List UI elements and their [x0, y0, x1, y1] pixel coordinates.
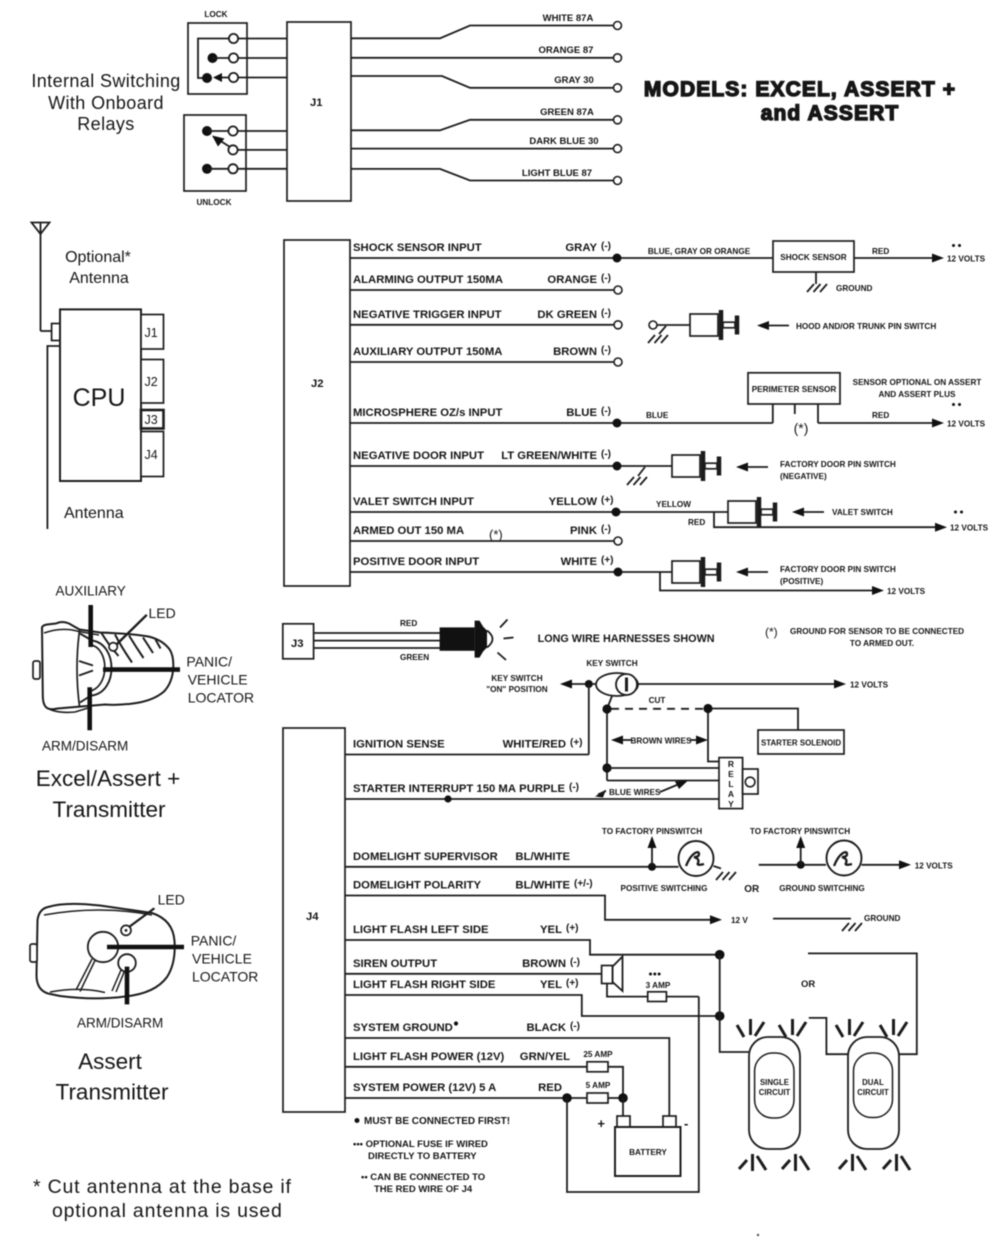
unlock contact top [202, 126, 238, 136]
svg-text:ARM/DISARM: ARM/DISARM [42, 739, 128, 754]
single circuit rays [737, 1019, 809, 1171]
svg-text:L: L [728, 779, 733, 789]
CPU box [60, 309, 141, 481]
svg-text:RED: RED [872, 411, 889, 420]
shock sensor box [773, 241, 854, 272]
wires J3 to LED [314, 619, 440, 662]
text long wire harnesses [538, 633, 715, 645]
svg-text:(-): (-) [601, 524, 611, 535]
svg-text:RED: RED [538, 1082, 562, 1094]
speck [757, 1234, 759, 1236]
svg-text:BLUE: BLUE [566, 407, 597, 419]
fob2 led dot [121, 925, 131, 935]
fob1 led dot [109, 643, 117, 651]
svg-text:NEGATIVE DOOR INPUT: NEGATIVE DOOR INPUT [353, 450, 484, 462]
note can be connected [361, 1172, 485, 1195]
svg-text:A: A [728, 789, 734, 799]
wire alarming output ORANGE [350, 273, 622, 294]
svg-text:(*): (*) [794, 420, 809, 436]
fob2 led callout [129, 892, 185, 928]
fob1 auxiliary callout bar [88, 605, 93, 647]
svg-text:NEGATIVE TRIGGER INPUT: NEGATIVE TRIGGER INPUT [353, 309, 502, 321]
valet switch symbol [620, 497, 775, 527]
svg-text:LIGHT FLASH LEFT SIDE: LIGHT FLASH LEFT SIDE [353, 924, 489, 936]
antenna wire from CPU [47, 346, 60, 529]
CPU connector J1 [141, 315, 164, 350]
connector J2 box [284, 240, 350, 586]
svg-text:* Cut antenna at the base if: * Cut antenna at the base if [33, 1176, 292, 1198]
svg-text:AND ASSERT PLUS: AND ASSERT PLUS [878, 390, 956, 399]
wire armed out PINK [350, 524, 622, 545]
svg-text:LT GREEN/WHITE: LT GREEN/WHITE [501, 450, 597, 462]
svg-text:5 AMP: 5 AMP [586, 1081, 611, 1090]
svg-text:CUT: CUT [649, 696, 666, 705]
svg-text:PURPLE: PURPLE [519, 783, 565, 795]
svg-text:12 V: 12 V [731, 916, 748, 925]
wire WHITE 87A [351, 13, 622, 38]
wire domelight polarity [345, 879, 748, 926]
relay LOCK box [188, 10, 247, 94]
cut dashed wire [602, 696, 712, 714]
svg-text:GROUND SWITCHING: GROUND SWITCHING [779, 884, 865, 893]
single circuit lamp [749, 1037, 800, 1149]
svg-text:BLUE WIRES: BLUE WIRES [609, 788, 661, 797]
wire starter interrupt [345, 782, 719, 803]
svg-text:(+): (+) [601, 555, 614, 566]
wire ignition sense [345, 738, 589, 755]
svg-text:••• OPTIONAL FUSE IF WIRED: ••• OPTIONAL FUSE IF WIRED [353, 1139, 488, 1150]
svg-text:(*): (*) [765, 625, 778, 639]
wire RED perimeter to 12V [818, 403, 986, 429]
starter solenoid box [758, 730, 844, 754]
svg-text:LED: LED [158, 892, 185, 908]
fob2 body assert [37, 904, 175, 999]
lock contact bottom with arrow [202, 73, 238, 83]
text OR switching [744, 884, 760, 895]
svg-text:RED: RED [400, 619, 417, 628]
svg-text:DOMELIGHT SUPERVISOR: DOMELIGHT SUPERVISOR [353, 851, 498, 863]
wire shock sensor input GRAY [350, 241, 622, 263]
svg-text:J2: J2 [145, 375, 158, 389]
svg-text:ALARMING OUTPUT 150MA: ALARMING OUTPUT 150MA [353, 274, 503, 286]
svg-text:GRAY 30: GRAY 30 [554, 75, 594, 86]
dual circuit rays [836, 1019, 910, 1171]
svg-text:ARM/DISARM: ARM/DISARM [77, 1016, 163, 1031]
svg-text:DK GREEN: DK GREEN [537, 309, 597, 321]
svg-text:DIRECTLY TO BATTERY: DIRECTLY TO BATTERY [368, 1151, 477, 1162]
fob2 arm callout bar [125, 967, 130, 1005]
svg-text:J3: J3 [291, 638, 304, 650]
antenna symbol [32, 223, 50, 332]
svg-text:GROUND: GROUND [836, 284, 872, 293]
svg-text:WHITE 87A: WHITE 87A [543, 13, 594, 24]
wire positive door input WHITE [350, 555, 623, 577]
note cut antenna [33, 1176, 292, 1222]
svg-text:and ASSERT: and ASSERT [761, 102, 900, 125]
svg-text:WHITE/RED: WHITE/RED [503, 739, 566, 751]
svg-text:BLUE, GRAY OR ORANGE: BLUE, GRAY OR ORANGE [648, 247, 751, 256]
wire light flash right side [345, 978, 715, 1016]
arrow valet switch label [792, 508, 893, 518]
fuse 5 amp [586, 1081, 628, 1116]
svg-text:RED: RED [688, 518, 705, 527]
svg-text:Y: Y [728, 799, 734, 809]
wire to starter solenoid [712, 709, 798, 731]
wire siren output [345, 957, 602, 974]
svg-text:optional antenna is used: optional antenna is used [52, 1200, 283, 1222]
svg-text:GREEN 87A: GREEN 87A [540, 107, 594, 118]
svg-text:12 VOLTS: 12 VOLTS [887, 587, 926, 596]
arrow hood/trunk label [757, 321, 936, 331]
siren speaker [602, 957, 623, 992]
svg-text:POSITIVE SWITCHING: POSITIVE SWITCHING [621, 884, 708, 893]
text optional antenna [65, 249, 131, 287]
svg-text:25 AMP: 25 AMP [583, 1050, 613, 1059]
wire system power [345, 1082, 587, 1103]
text excel/assert transmitter [36, 766, 180, 822]
svg-text:BL/WHITE: BL/WHITE [515, 851, 570, 863]
svg-text:12 VOLTS: 12 VOLTS [850, 681, 889, 690]
svg-text:Antenna: Antenna [69, 270, 129, 287]
perimeter sensor legs [773, 404, 818, 436]
svg-text:BATTERY: BATTERY [629, 1148, 667, 1157]
svg-text:(POSITIVE): (POSITIVE) [780, 577, 823, 586]
svg-text:LOCK: LOCK [204, 10, 227, 19]
hood/trunk pin switch [649, 310, 737, 340]
svg-text:OR: OR [801, 979, 815, 990]
svg-text:CIRCUIT: CIRCUIT [857, 1088, 889, 1097]
svg-text:LIGHT BLUE 87: LIGHT BLUE 87 [522, 168, 592, 179]
junction ignition sense to key switch [585, 680, 593, 755]
lock contact middle [208, 53, 239, 63]
svg-text:With Onboard: With Onboard [48, 93, 164, 113]
dual circuit alternative wires [808, 953, 917, 1054]
svg-text:VALET SWITCH INPUT: VALET SWITCH INPUT [353, 496, 474, 508]
svg-text:AUXILIARY: AUXILIARY [56, 584, 126, 599]
svg-text:LIGHT FLASH POWER (12V): LIGHT FLASH POWER (12V) [353, 1051, 504, 1063]
wire cut left vertical [602, 713, 611, 781]
bulb ground switching [750, 827, 953, 893]
svg-text:HOOD AND/OR TRUNK PIN SWITCH: HOOD AND/OR TRUNK PIN SWITCH [796, 322, 936, 331]
svg-text:DUAL: DUAL [862, 1078, 884, 1087]
wire auxiliary output BROWN [350, 345, 622, 366]
text sensor optional [853, 378, 982, 399]
arrow factory door negative label [736, 460, 896, 481]
relay UNLOCK box [184, 115, 246, 207]
fob1 ribs [102, 633, 161, 663]
svg-text:J1: J1 [310, 97, 323, 109]
svg-text:STARTER SOLENOID: STARTER SOLENOID [761, 739, 841, 748]
shock sensor ground [807, 272, 872, 293]
svg-text:(+): (+) [566, 923, 579, 934]
wire light flash left side [345, 923, 715, 955]
text internal switching [31, 71, 180, 134]
fob1 key tab [33, 661, 40, 679]
wire system ground [345, 1021, 669, 1116]
unlock contact middle with arrow [212, 136, 238, 155]
svg-text:J1: J1 [145, 326, 158, 340]
svg-text:(-): (-) [601, 241, 611, 252]
svg-text:GREEN: GREEN [400, 653, 429, 662]
svg-text:KEY SWITCH: KEY SWITCH [586, 659, 637, 668]
svg-text:LONG WIRE HARNESSES SHOWN: LONG WIRE HARNESSES SHOWN [538, 633, 715, 645]
svg-text:FACTORY DOOR PIN SWITCH: FACTORY DOOR PIN SWITCH [780, 565, 896, 574]
svg-text:Internal Switching: Internal Switching [31, 71, 180, 91]
unlock contact bottom [202, 164, 238, 174]
text assert transmitter [56, 1049, 169, 1105]
light flash bus [715, 950, 749, 1052]
svg-text:ARMED OUT 150 MA: ARMED OUT 150 MA [353, 525, 464, 537]
wire cut right to relay [708, 713, 719, 762]
wire ORANGE 87 [351, 45, 622, 62]
fob1 led callout [117, 605, 176, 645]
svg-text:12 VOLTS: 12 VOLTS [947, 255, 986, 264]
connector J4 box [283, 728, 345, 1112]
siren fuse 3 amp [607, 973, 699, 1002]
wires lock box to J1 [238, 39, 287, 78]
svg-text:3 AMP: 3 AMP [646, 981, 671, 990]
svg-text:BROWN: BROWN [522, 958, 566, 970]
svg-text:R: R [728, 759, 734, 769]
svg-text:MODELS: EXCEL, ASSERT +: MODELS: EXCEL, ASSERT + [644, 78, 956, 101]
CPU connector J3 [141, 410, 164, 429]
svg-text:(+/-): (+/-) [574, 879, 593, 890]
svg-text:12 VOLTS: 12 VOLTS [915, 861, 954, 870]
wire domelight supervisor [345, 851, 679, 867]
antenna lead wire into CPU [41, 324, 61, 341]
svg-text:YELLOW: YELLOW [656, 500, 691, 509]
svg-text:GRN/YEL: GRN/YEL [520, 1051, 570, 1063]
text arm/disarm 2 [77, 1016, 163, 1031]
svg-text:ORANGE 87: ORANGE 87 [539, 45, 594, 56]
svg-text:YEL: YEL [540, 924, 562, 936]
svg-text:TO ARMED OUT.: TO ARMED OUT. [850, 639, 914, 648]
blue wires label with arrows [595, 781, 688, 798]
battery [597, 1116, 688, 1176]
svg-text:(+): (+) [601, 495, 614, 506]
svg-text:BROWN WIRES: BROWN WIRES [631, 737, 692, 746]
svg-text:OR: OR [744, 884, 760, 895]
svg-text:SHOCK SENSOR INPUT: SHOCK SENSOR INPUT [353, 242, 482, 254]
svg-text:(-): (-) [570, 1021, 580, 1032]
svg-text:SIREN OUTPUT: SIREN OUTPUT [353, 958, 437, 970]
wires unlock box to J1 [238, 131, 287, 169]
battery loop wire to siren fuse [567, 997, 699, 1192]
svg-text:RED: RED [872, 247, 889, 256]
title models [644, 78, 956, 125]
wire RED shock to 12V [854, 244, 986, 264]
svg-text:DOMELIGHT POLARITY: DOMELIGHT POLARITY [353, 880, 481, 892]
brown wires label with arrows [611, 736, 708, 746]
svg-text:TO FACTORY PINSWITCH: TO FACTORY PINSWITCH [602, 827, 702, 836]
text auxiliary [56, 584, 126, 599]
fob2 arm button [118, 954, 136, 972]
svg-text:VEHICLE: VEHICLE [188, 672, 248, 688]
factory door pin switch negative [621, 451, 719, 481]
wire microsphere input BLUE [350, 406, 622, 428]
text OR lamps [801, 979, 815, 990]
door pin switch negative ground [627, 467, 647, 485]
connector J3 box [283, 624, 314, 659]
relay box [719, 758, 743, 809]
svg-text:GRAY: GRAY [565, 242, 597, 254]
perimeter sensor box [748, 373, 840, 404]
note ground for sensor [765, 625, 964, 648]
svg-text:Excel/Assert +: Excel/Assert + [36, 766, 180, 791]
wire light flash power [345, 1051, 587, 1067]
fuse 25 amp [583, 1050, 623, 1098]
fob2 key tab [30, 944, 37, 962]
svg-text:(+): (+) [566, 978, 579, 989]
svg-text:Transmitter: Transmitter [56, 1080, 169, 1105]
svg-text:POSITIVE DOOR INPUT: POSITIVE DOOR INPUT [353, 556, 479, 568]
svg-text:J4: J4 [306, 911, 319, 923]
note optional fuse [353, 1139, 488, 1162]
wire negative trigger input DK GREEN [350, 308, 622, 329]
wire RED valet to 12V [688, 511, 989, 533]
CPU connector J4 [141, 432, 164, 477]
svg-text:(+): (+) [570, 738, 583, 749]
svg-text:UNLOCK: UNLOCK [196, 198, 231, 207]
bulb positive switching [621, 841, 736, 893]
svg-text:(NEGATIVE): (NEGATIVE) [780, 472, 827, 481]
arrow factory door positive label [736, 565, 896, 586]
text panic vehicle locator 2 [191, 933, 259, 985]
svg-text:"ON" POSITION: "ON" POSITION [486, 685, 548, 694]
svg-text:12 VOLTS: 12 VOLTS [950, 524, 989, 533]
wires to relay [607, 768, 719, 781]
svg-text:12 VOLTS: 12 VOLTS [947, 420, 986, 429]
svg-text:(-): (-) [601, 406, 611, 417]
fob1 arm callout bar [87, 687, 92, 730]
svg-text:CIRCUIT: CIRCUIT [759, 1088, 791, 1097]
svg-text:GROUND FOR SENSOR TO BE CONNEC: GROUND FOR SENSOR TO BE CONNECTED [790, 627, 964, 636]
CPU connector J2 [141, 360, 164, 404]
svg-text:TO FACTORY PINSWITCH: TO FACTORY PINSWITCH [750, 827, 850, 836]
svg-text:Optional*: Optional* [65, 249, 131, 266]
hood pin switch ground [648, 326, 668, 343]
lock contact top [198, 34, 238, 78]
svg-text:KEY SWITCH: KEY SWITCH [491, 674, 542, 683]
dual circuit lamp [848, 1037, 899, 1149]
svg-text:(-): (-) [601, 345, 611, 356]
LED indicator [440, 620, 514, 661]
wire valet switch input YELLOW [350, 495, 621, 517]
note must be connected [355, 1116, 511, 1127]
arrow key switch on position [486, 674, 596, 694]
svg-text:Antenna: Antenna [64, 505, 124, 522]
svg-text:SYSTEM POWER (12V) 5 A: SYSTEM POWER (12V) 5 A [353, 1082, 496, 1094]
svg-text:J2: J2 [311, 378, 324, 390]
svg-text:BL/WHITE: BL/WHITE [515, 880, 570, 892]
svg-text:WHITE: WHITE [561, 556, 598, 568]
svg-text:STARTER INTERRUPT 150 MA: STARTER INTERRUPT 150 MA [353, 783, 516, 795]
svg-text:Assert: Assert [78, 1049, 143, 1074]
svg-text:BLUE: BLUE [646, 411, 669, 420]
wire negative door input LT GREEN/WHITE [350, 449, 622, 471]
svg-text:YEL: YEL [540, 979, 562, 991]
wire blue gray or orange to shock sensor [621, 247, 773, 258]
fob1 body excel/assert+ [42, 622, 173, 712]
relay O terminal box [743, 769, 758, 794]
wire key switch to 12V [638, 680, 889, 690]
svg-text:LIGHT FLASH RIGHT SIDE: LIGHT FLASH RIGHT SIDE [353, 979, 496, 991]
svg-text:SENSOR OPTIONAL ON ASSERT: SENSOR OPTIONAL ON ASSERT [853, 378, 982, 387]
svg-text:CPU: CPU [73, 384, 126, 412]
text arm/disarm 1 [42, 739, 128, 754]
svg-text:IGNITION SENSE: IGNITION SENSE [353, 739, 445, 751]
wire BLUE to perimeter sensor [621, 411, 773, 423]
fob1 panic callout bar [103, 667, 180, 672]
svg-text:LED: LED [149, 605, 176, 621]
factory door pin switch positive [622, 557, 719, 587]
wire door positive to 12V [660, 572, 926, 596]
svg-text:BROWN: BROWN [553, 346, 597, 358]
svg-text:BLACK: BLACK [526, 1022, 566, 1034]
svg-text:(*): (*) [489, 527, 503, 542]
svg-text:PINK: PINK [570, 525, 598, 537]
svg-text:PANIC/: PANIC/ [191, 933, 237, 949]
svg-text:Relays: Relays [77, 114, 134, 134]
svg-text:PANIC/: PANIC/ [186, 654, 232, 670]
svg-text:(-): (-) [601, 449, 611, 460]
svg-text:VALET SWITCH: VALET SWITCH [832, 508, 893, 517]
svg-text:SYSTEM GROUND: SYSTEM GROUND [353, 1022, 453, 1034]
svg-text:E: E [728, 769, 734, 779]
fob2 panic callout bar [107, 945, 184, 950]
fob1 buttons divider [79, 634, 112, 703]
svg-text:(-): (-) [570, 957, 580, 968]
fob2 panic button [88, 932, 118, 962]
svg-text:MUST BE CONNECTED FIRST!: MUST BE CONNECTED FIRST! [364, 1116, 510, 1127]
wire LIGHT BLUE 87 [351, 168, 622, 185]
ground alternative for polarity [773, 914, 900, 931]
arrow to factory pinswitch 1 [602, 827, 702, 871]
text antenna [64, 505, 124, 522]
svg-text:+: + [597, 1116, 605, 1131]
svg-text:MICROSPHERE OZ/s INPUT: MICROSPHERE OZ/s INPUT [353, 407, 502, 419]
svg-text:FACTORY DOOR PIN SWITCH: FACTORY DOOR PIN SWITCH [780, 460, 896, 469]
svg-text:LOCATOR: LOCATOR [192, 969, 258, 985]
svg-text:SHOCK SENSOR: SHOCK SENSOR [780, 253, 847, 262]
svg-text:THE RED WIRE OF J4: THE RED WIRE OF J4 [374, 1184, 473, 1195]
svg-text:-: - [684, 1116, 688, 1131]
wire GRAY 30 [351, 75, 622, 92]
svg-text:PERIMETER SENSOR: PERIMETER SENSOR [752, 385, 837, 394]
svg-text:(-): (-) [569, 782, 579, 793]
svg-text:YELLOW: YELLOW [549, 496, 598, 508]
svg-text:J4: J4 [145, 448, 158, 462]
svg-text:DARK BLUE 30: DARK BLUE 30 [529, 136, 598, 147]
connector J1 box [287, 22, 351, 201]
svg-text:AUXILIARY OUTPUT 150MA: AUXILIARY OUTPUT 150MA [353, 346, 502, 358]
svg-text:(-): (-) [601, 273, 611, 284]
wire DARK BLUE 30 [351, 136, 622, 153]
svg-text:•• CAN BE CONNECTED TO: •• CAN BE CONNECTED TO [361, 1172, 485, 1183]
svg-text:ORANGE: ORANGE [547, 274, 597, 286]
svg-text:SINGLE: SINGLE [760, 1078, 789, 1087]
wire GREEN 87A [351, 107, 622, 130]
svg-text:(-): (-) [601, 308, 611, 319]
svg-text:J3: J3 [145, 413, 158, 427]
svg-text:LOCATOR: LOCATOR [188, 690, 254, 706]
svg-text:Transmitter: Transmitter [53, 797, 166, 822]
svg-text:GROUND: GROUND [864, 914, 900, 923]
key switch symbol [586, 659, 638, 696]
text panic vehicle locator 1 [186, 654, 254, 706]
svg-text:VEHICLE: VEHICLE [192, 951, 252, 967]
